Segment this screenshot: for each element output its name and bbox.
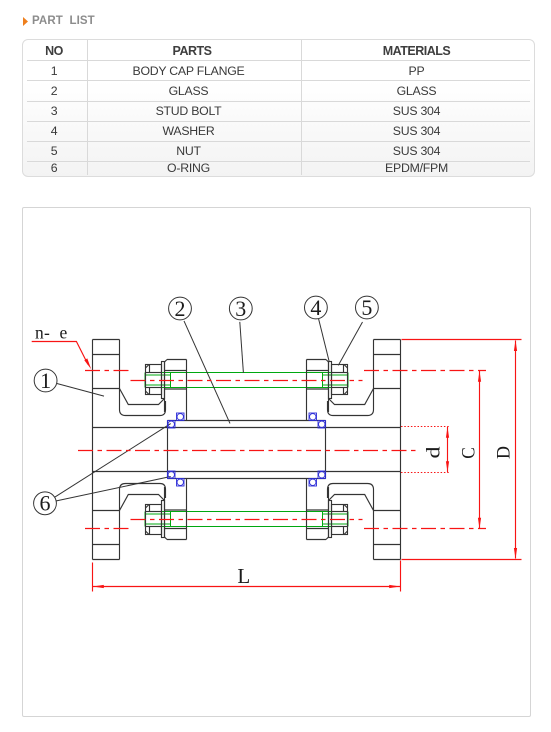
nut bottom-left	[146, 505, 162, 535]
cap plate top-right	[307, 360, 329, 421]
nut top-left	[146, 365, 162, 395]
D dimension	[402, 339, 522, 341]
balloon digits	[35, 295, 372, 588]
title: PART LIST header	[22, 14, 29, 25]
leader line 5	[338, 322, 362, 365]
balloon circle 1	[34, 369, 57, 392]
row 2	[22, 84, 86, 98]
svg-text:1: 1	[40, 368, 51, 393]
cap plate bottom-left	[165, 479, 187, 540]
body cap flange right: groove outer outline top	[328, 340, 374, 416]
L arrows	[93, 585, 104, 588]
bore line bottom	[93, 471, 401, 473]
o-ring squares blue	[168, 413, 326, 486]
D arrows	[514, 340, 517, 351]
svg-text:6: 6	[40, 491, 51, 516]
parts table panel	[22, 39, 535, 177]
svg-text:5: 5	[361, 295, 372, 320]
flange bolt axis bottom-right	[364, 528, 486, 530]
row 5	[22, 144, 86, 158]
leader line 2	[184, 321, 230, 424]
L dimension	[92, 563, 94, 592]
leader line 1	[57, 384, 104, 397]
table row lines	[27, 60, 530, 61]
body cap flange left: outer flange plate	[93, 340, 120, 560]
nut bottom-right	[332, 505, 348, 535]
n-e leader red	[32, 342, 88, 365]
body cap flange left: groove inner outline top	[120, 389, 165, 405]
bore line top	[93, 427, 401, 429]
svg-text:D: D	[495, 446, 515, 459]
svg-text:C: C	[460, 447, 480, 459]
C dimension	[479, 371, 481, 529]
red centerlines	[32, 340, 522, 592]
body cap flange right: outer flange plate	[374, 340, 401, 560]
drawing panel	[22, 207, 531, 717]
table column line 1	[87, 40, 88, 175]
C arrows	[478, 371, 481, 382]
nut top-right	[332, 365, 348, 395]
balloon circle 5	[356, 296, 379, 319]
leader lines 6	[54, 424, 170, 498]
row 1	[22, 64, 86, 78]
flange bolt axis bottom-left	[85, 528, 130, 530]
cap plate bottom-right	[307, 479, 329, 540]
body cap flange left: groove inner outline bottom	[120, 495, 165, 511]
stud axis bottom	[131, 519, 363, 521]
red arrowheads	[84, 340, 517, 588]
table column line 2	[301, 40, 302, 175]
table header row	[22, 44, 86, 58]
svg-text:3: 3	[235, 296, 246, 321]
balloon circle 2	[169, 297, 192, 320]
svg-text:L: L	[237, 564, 250, 588]
row 6	[22, 161, 86, 175]
leader line 4	[319, 319, 330, 363]
body cap flange left: groove outer outline bottom	[120, 484, 166, 560]
flange bolt axis top-left	[85, 370, 130, 372]
svg-text:d: d	[425, 446, 445, 459]
washer top-left	[162, 362, 165, 399]
n-e arrowhead	[84, 358, 91, 369]
svg-text:2: 2	[175, 296, 186, 321]
stud bolt green	[145, 373, 348, 527]
balloon circle 4	[305, 296, 328, 319]
dimension texts rotated	[425, 446, 515, 459]
washer bottom-left	[162, 501, 165, 538]
row 4	[22, 124, 86, 138]
balloon circle 3	[229, 297, 252, 320]
body cap flange right: groove outer outline bottom	[328, 484, 374, 560]
balloon circle 6	[34, 492, 57, 515]
cap plate top-left	[165, 360, 187, 421]
leader line 3	[240, 322, 244, 373]
svg-text:n- e: n- e	[35, 323, 68, 343]
row 3	[22, 104, 86, 118]
body cap flange left: groove outer outline top	[120, 340, 166, 416]
main axis centerline	[78, 450, 419, 452]
washer top-right	[329, 362, 332, 399]
body cap flange right: groove inner outline top	[329, 389, 374, 405]
flange bolt axis top-right	[364, 370, 486, 372]
stud axis top	[131, 380, 363, 382]
glass tube outline	[168, 421, 326, 479]
washer bottom-right	[329, 501, 332, 538]
d dimension	[401, 426, 450, 428]
body cap flange right: groove inner outline bottom	[329, 495, 374, 511]
d arrows	[446, 427, 449, 438]
svg-text:4: 4	[310, 295, 321, 320]
